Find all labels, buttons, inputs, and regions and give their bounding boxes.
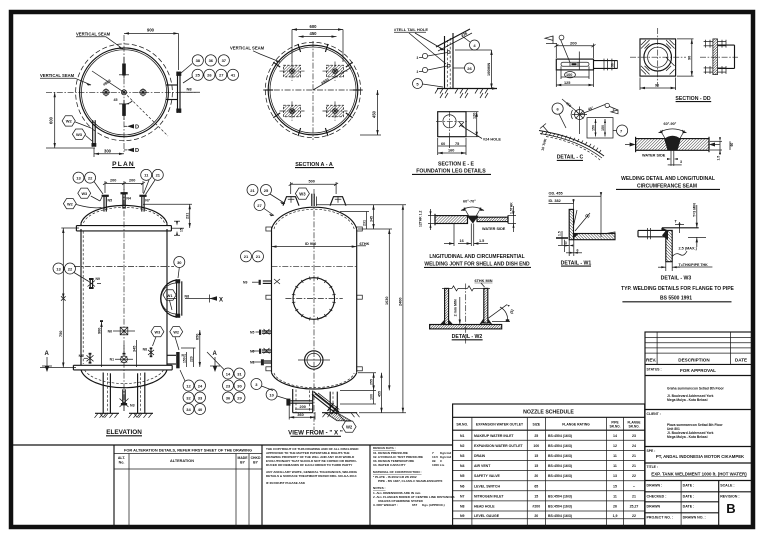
svg-text:N6: N6 [250, 350, 254, 354]
svg-text:BS:4504 (16/3): BS:4504 (16/3) [548, 434, 572, 438]
svg-text:EXP. TANK WELDMENT 1000 lt. (H: EXP. TANK WELDMENT 1000 lt. (HOT WATER) [651, 472, 747, 477]
W2 centerline [465, 284, 467, 345]
elevation legs [103, 373, 145, 414]
svg-text:N2: N2 [460, 444, 465, 448]
section AA leg pads [280, 62, 348, 121]
svg-text:PROJECT NO. :: PROJECT NO. : [647, 516, 674, 520]
W1 vertical plate [569, 209, 573, 239]
svg-text:1.5THK: 1.5THK [510, 202, 514, 214]
svg-text:11: 11 [613, 494, 617, 498]
svg-text:15: 15 [180, 228, 184, 232]
svg-text:6: 6 [577, 248, 579, 252]
svg-text:30: 30 [611, 63, 615, 67]
elevation ref circles 11 21 top [141, 169, 164, 194]
lug plate plan [556, 59, 593, 70]
viewx ref circle 3 [251, 379, 273, 391]
svg-text:21: 21 [632, 454, 636, 458]
svg-text:360: 360 [297, 413, 303, 417]
long weld right thk dim [508, 202, 516, 232]
svg-text:33: 33 [198, 395, 203, 400]
lug side view with bolts [700, 39, 738, 75]
svg-text:EXPANSION WATER OUTLET: EXPANSION WATER OUTLET [476, 423, 524, 427]
viewx shell [272, 229, 357, 373]
svg-text:DESCRIPTION: DESCRIPTION [678, 358, 710, 363]
svg-text:20: 20 [534, 514, 538, 518]
elevation section A markers [42, 351, 220, 372]
elevation X marker [185, 295, 223, 304]
svg-text:11: 11 [613, 454, 617, 458]
W2 right plate [479, 288, 492, 324]
svg-text:125: 125 [564, 81, 570, 85]
elevation nozzle N8 small left [79, 353, 94, 364]
svg-text:60°-70°: 60°-70° [463, 199, 476, 203]
svg-text:21: 21 [632, 494, 636, 498]
weld detail caption [616, 176, 720, 189]
elevation dim 850 right [196, 330, 201, 367]
svg-text:231: 231 [362, 220, 366, 226]
svg-text:15: 15 [613, 484, 617, 488]
plan bottom flange bar [119, 100, 129, 120]
detail C thk dim [540, 124, 549, 152]
detail C title [557, 155, 584, 161]
elevation dims 150 220 right [181, 348, 196, 367]
detail C shell arc [539, 131, 604, 161]
elevation shell [81, 229, 167, 365]
svg-text:SR.NO.: SR.NO. [629, 425, 640, 429]
svg-text:04. WATER CAPACITY: 04. WATER CAPACITY [373, 463, 406, 467]
plan phi906 leader [92, 71, 124, 92]
svg-text:WATER SIDE: WATER SIDE [642, 153, 666, 157]
svg-text:31: 31 [237, 371, 242, 376]
svg-text:ALT.: ALT. [118, 456, 126, 460]
viewx top nozzle [312, 194, 317, 206]
viewx ref circles 21 21 left [241, 251, 264, 262]
svg-text:MATERIAL OF CONSTRUCTION :: MATERIAL OF CONSTRUCTION : [373, 470, 422, 474]
svg-text:PIPE - BS 1387, CLASS-C SEAMLE: PIPE - BS 1387, CLASS-C SEAMLESS/APPX [378, 479, 443, 483]
svg-text:13: 13 [56, 266, 61, 271]
elevation top flange [76, 223, 171, 231]
plan title [112, 161, 135, 168]
lug pipe stub [579, 52, 617, 71]
svg-text:22: 22 [632, 514, 636, 518]
weld right thickness dim [710, 137, 734, 160]
svg-text:14: 14 [613, 434, 617, 438]
W3 T dim [675, 220, 685, 234]
svg-text:21: 21 [250, 188, 255, 193]
elevation top nozzle N5 [102, 195, 113, 212]
svg-text:SR.NO.: SR.NO. [456, 423, 468, 427]
svg-text:Mega Mulya - Kota Bekasi: Mega Mulya - Kota Bekasi [667, 435, 708, 439]
svg-text:22: 22 [88, 175, 93, 180]
svg-text:150: 150 [182, 357, 186, 363]
svg-text:N6: N6 [108, 329, 112, 333]
W2 left plate [440, 288, 453, 324]
elevation dim 200 200 [103, 179, 145, 194]
svg-text:3: 3 [417, 56, 419, 60]
viewx circumferential seam line [272, 266, 357, 268]
svg-text:40: 40 [198, 407, 203, 412]
svg-text:W3: W3 [299, 192, 306, 197]
plan dim 900 [124, 28, 178, 71]
detail C nozzle cross [571, 107, 587, 135]
svg-text:DETAIL - W3: DETAIL - W3 [661, 276, 692, 282]
svg-text:25: 25 [264, 188, 269, 193]
W3 flange ring [662, 228, 699, 262]
svg-text:A: A [213, 351, 218, 357]
svg-text:VIEW FROM - " X ": VIEW FROM - " X " [288, 430, 343, 437]
svg-text:2 mm MIN: 2 mm MIN [453, 299, 457, 316]
svg-text:IF IN DOUBT PLEASE ASK: IF IN DOUBT PLEASE ASK [266, 481, 306, 485]
svg-text:REVISION :: REVISION : [720, 495, 739, 499]
svg-text:37: 37 [222, 58, 227, 63]
svg-text:25: 25 [195, 73, 200, 78]
svg-text:3: 3 [680, 160, 682, 164]
svg-text:A: A [45, 351, 50, 357]
foundation leg pipe [417, 29, 473, 89]
viewx manhole [285, 277, 342, 321]
svg-text:1630: 1630 [385, 297, 389, 305]
svg-text:FOR APPROVAL: FOR APPROVAL [680, 368, 716, 373]
svg-text:WELDING JONT FOR SHELL AND DIS: WELDING JONT FOR SHELL AND DISH END [424, 261, 530, 267]
svg-text:24: 24 [632, 444, 636, 448]
svg-text:MAKEUP WATER INLET: MAKEUP WATER INLET [474, 434, 514, 438]
section AA vertical seam label [230, 46, 280, 63]
viewx lifting lugs [283, 196, 346, 206]
svg-text:1000 Lts: 1000 Lts [432, 463, 445, 467]
plan label vertical seam left [40, 73, 91, 86]
plan hexagon W2 [62, 116, 91, 128]
svg-text:23: 23 [632, 434, 636, 438]
svg-text:3: 3 [613, 107, 615, 111]
svg-text:20: 20 [534, 474, 538, 478]
viewx diagonal nozzle N2 [312, 392, 339, 414]
section DD title [675, 96, 711, 102]
svg-text:12THK 1.2: 12THK 1.2 [419, 210, 423, 227]
svg-text:CHECKED :: CHECKED : [647, 495, 667, 499]
svg-text:N6: N6 [460, 484, 465, 488]
elevation ref circles 13 22 top [73, 172, 103, 194]
svg-text:SCALE :: SCALE : [720, 484, 734, 488]
svg-text:22: 22 [632, 474, 636, 478]
svg-text:450: 450 [310, 31, 318, 36]
svg-text:N3: N3 [460, 454, 465, 458]
svg-text:DETAIL - C: DETAIL - C [557, 155, 584, 161]
svg-text:90: 90 [688, 56, 692, 60]
svg-text:1.5: 1.5 [558, 231, 562, 236]
svg-text:ID 900: ID 900 [305, 242, 316, 246]
W1 id dim [549, 199, 575, 210]
design data notes block [373, 446, 455, 507]
elevation nozzle N6 on centerline [108, 327, 135, 335]
nozzle schedule table [453, 404, 645, 527]
section AA phi900 leader [313, 67, 352, 90]
svg-text:12: 12 [613, 444, 617, 448]
viewx ref circle 10 [266, 389, 290, 400]
svg-text:NOZZLE SCHEDULE: NOZZLE SCHEDULE [523, 409, 574, 415]
elevation title [106, 429, 142, 436]
elevation flange thk dim [171, 221, 184, 235]
base plate dims 60 75 160 [438, 138, 466, 155]
svg-text:150: 150 [592, 125, 596, 131]
W2 top break lines [442, 286, 490, 291]
viewx front leg [293, 389, 313, 413]
viewx dim 500 [289, 180, 338, 195]
viewx drain circle [298, 351, 330, 369]
svg-text:29: 29 [237, 395, 242, 400]
long weld root dims [444, 224, 488, 247]
svg-text:SECTION E - E: SECTION E - E [438, 162, 475, 168]
section AA seam ticks [265, 44, 362, 136]
svg-text:DATE :: DATE : [683, 505, 695, 509]
svg-text:BS:4504 (16/3): BS:4504 (16/3) [548, 454, 572, 458]
svg-text:11: 11 [613, 464, 617, 468]
svg-text:N1: N1 [460, 434, 465, 438]
W3 2.5max label [672, 247, 697, 257]
svg-text:N1: N1 [250, 361, 254, 365]
svg-text:FLANGE RATING: FLANGE RATING [562, 423, 590, 427]
foundation leg ref circle 5 [413, 79, 444, 89]
svg-text:455: 455 [377, 391, 381, 397]
svg-text:N5: N5 [108, 199, 113, 203]
svg-text:AIR VENT: AIR VENT [474, 464, 491, 468]
svg-text:200: 200 [129, 179, 135, 183]
elevation ref circles 13 22 left [53, 263, 88, 281]
viewx head [272, 207, 357, 229]
svg-text:Kgs (APPROX.): Kgs (APPROX.) [422, 503, 445, 507]
svg-text:#24 HOLE: #24 HOLE [483, 138, 501, 142]
svg-text:36: 36 [226, 395, 231, 400]
elevation drain N3 [120, 389, 135, 411]
svg-text:DETAILS & SURFACE TREATMENT RE: DETAILS & SURFACE TREATMENT REFER DRG. N… [266, 474, 357, 478]
svg-text:26: 26 [207, 73, 212, 78]
elevation hexagon W2 top [63, 199, 101, 209]
elevation bottom head [81, 370, 167, 388]
svg-text:N8: N8 [185, 295, 190, 299]
svg-text:TYP. WELDING DETAILS FOR FLANG: TYP. WELDING DETAILS FOR FLANGE TO PIPE [621, 286, 734, 292]
svg-text:60: 60 [730, 143, 734, 147]
svg-text:15: 15 [534, 454, 538, 458]
svg-text:W2: W2 [67, 202, 73, 206]
detail C ref circle 6 [552, 103, 566, 128]
section AA dim 450 top [299, 31, 337, 38]
svg-text:BS:4504 (16/3): BS:4504 (16/3) [548, 505, 572, 509]
elevation dim 345 internal [132, 340, 136, 367]
svg-text:BS:4504 (16/3): BS:4504 (16/3) [548, 474, 572, 478]
elevation hexagon W3 top [78, 188, 102, 201]
svg-text:T=THK/PIPE THK: T=THK/PIPE THK [679, 263, 709, 267]
svg-text:65: 65 [534, 484, 538, 488]
svg-text:13: 13 [76, 175, 81, 180]
elevation top nozzle N7 [139, 195, 150, 212]
svg-text:6THK MIN: 6THK MIN [475, 279, 493, 283]
detail C pad plate [587, 118, 613, 138]
viewx ref circles top [247, 185, 285, 217]
svg-text:LEVEL SWITCH: LEVEL SWITCH [474, 484, 500, 488]
elevation hexagons W3 W2 bottom [151, 327, 183, 350]
lug dims 100 125 [556, 66, 593, 87]
svg-text:SECTION - DD: SECTION - DD [675, 96, 710, 102]
elevation nozzle N9 left [88, 277, 102, 289]
svg-text:22: 22 [68, 266, 73, 271]
svg-text:MADE: MADE [238, 456, 249, 460]
svg-text:200: 200 [110, 179, 116, 183]
svg-text:CIRCUMFERANCE SEAM: CIRCUMFERANCE SEAM [637, 183, 697, 189]
svg-text:BY: BY [253, 461, 258, 465]
svg-text:27: 27 [257, 203, 262, 208]
section EE title [412, 162, 491, 175]
svg-text:26: 26 [613, 505, 617, 509]
section DD dim 90 bottom [640, 78, 676, 91]
viewx right dims 255 100 [340, 373, 376, 404]
plan diagonal dashed line [124, 92, 168, 136]
svg-text:900: 900 [147, 28, 155, 33]
svg-text:25: 25 [534, 434, 538, 438]
plan hexagon W3 [72, 129, 92, 141]
lug dim 200 [554, 40, 595, 58]
svg-text:DETAIL - W1: DETAIL - W1 [561, 260, 592, 266]
svg-text:1,9: 1,9 [613, 514, 618, 518]
svg-text:34: 34 [186, 407, 191, 412]
svg-text:27: 27 [219, 73, 224, 78]
plan ref circles 25 26 27 41 [181, 64, 239, 84]
elevation dim 900 internal [97, 320, 103, 367]
viewx left nozzles bottom [250, 348, 272, 365]
svg-text:3. DRY WEIGHT :: 3. DRY WEIGHT : [373, 503, 398, 507]
viewx hexagon W2 [334, 409, 356, 432]
svg-text:W3: W3 [76, 132, 83, 137]
svg-text:PLAN: PLAN [112, 161, 135, 168]
section DD square plate [630, 28, 686, 87]
plan center bolt symbols [102, 88, 147, 96]
svg-text:100: 100 [369, 394, 373, 400]
svg-text:DRAIN: DRAIN [474, 454, 486, 458]
svg-text:26: 26 [467, 66, 472, 71]
svg-text:N9: N9 [96, 277, 100, 281]
svg-text:21: 21 [156, 173, 161, 178]
svg-text:16: 16 [460, 239, 464, 243]
svg-text:13: 13 [613, 474, 617, 478]
svg-text:N5: N5 [250, 331, 254, 335]
plan nozzle lower-left flange [92, 120, 97, 147]
elevation dished head [81, 205, 167, 223]
svg-text:N1: N1 [110, 358, 114, 362]
viewx dim 200 [295, 405, 313, 409]
svg-text:150: 150 [601, 125, 605, 131]
W1 angle leader [574, 210, 591, 231]
svg-text:38: 38 [196, 58, 201, 63]
svg-text:450: 450 [372, 110, 377, 118]
lug weld flag [545, 35, 570, 62]
elevation nozzle N2 right [167, 352, 186, 368]
viewx hexagon W3 [295, 188, 309, 199]
svg-text:90: 90 [655, 84, 659, 88]
foundation dim 100min [455, 50, 493, 89]
svg-text:HEAD HOLE: HEAD HOLE [474, 505, 495, 509]
detail C diagonal leaders [562, 99, 618, 115]
plan label vertical seam top [76, 32, 123, 49]
elevation left dims [40, 228, 79, 368]
svg-text:W3: W3 [81, 192, 87, 196]
svg-text:41: 41 [231, 73, 236, 78]
long weld groove angle [461, 199, 484, 222]
svg-text:TITLE :: TITLE : [647, 465, 659, 469]
svg-text:900: 900 [97, 328, 101, 334]
elevation ref circle group A [180, 370, 206, 415]
detail C ref circle 7 [613, 125, 628, 136]
foundation leg ref circle 4 [462, 36, 480, 50]
svg-text:3: 3 [417, 70, 419, 74]
svg-text:200: 200 [570, 40, 577, 45]
svg-text:SIZE: SIZE [533, 423, 541, 427]
svg-text:345: 345 [369, 216, 373, 222]
lug side dim [610, 61, 617, 69]
svg-text:SR.NO.: SR.NO. [610, 425, 621, 429]
svg-text:N2: N2 [182, 354, 186, 358]
svg-text:30: 30 [237, 383, 242, 388]
W1 od dim [549, 192, 603, 237]
svg-text:#TELL TAIL HOLE: #TELL TAIL HOLE [394, 27, 428, 32]
elevation hexagon W1 on manhole [163, 290, 176, 310]
svg-text:Mega Mulya - Kota Bekasi: Mega Mulya - Kota Bekasi [667, 398, 708, 402]
section AA dim 600 top [292, 24, 343, 62]
svg-text:No.: No. [119, 461, 125, 465]
svg-text:FOR ALTERATION DETAILS, REFER: FOR ALTERATION DETAILS, REFER FIRST SHEE… [124, 447, 252, 452]
weld groove angle [659, 122, 687, 147]
svg-text:255: 255 [369, 379, 373, 385]
svg-text:N8: N8 [143, 348, 147, 352]
viewx drain outlet left [286, 399, 313, 406]
plan nozzle N8 right [166, 72, 200, 113]
alteration note strip [13, 445, 453, 527]
svg-text:120: 120 [472, 113, 476, 119]
svg-text:DRAWN NO. :: DRAWN NO. : [683, 516, 706, 520]
svg-text:750: 750 [59, 331, 63, 337]
svg-text:B: B [726, 501, 735, 516]
svg-text:3: 3 [565, 241, 567, 245]
svg-text:SAFETY VALVE: SAFETY VALVE [474, 474, 501, 478]
svg-text:36: 36 [209, 58, 214, 63]
svg-text:24: 24 [198, 383, 203, 388]
W2 6thk label [475, 279, 493, 287]
svg-text:#200: #200 [532, 505, 540, 509]
viewx dims 345 231 top right [340, 205, 375, 229]
svg-text:NITROGEN INLET: NITROGEN INLET [474, 494, 504, 498]
svg-text:N7: N7 [145, 199, 150, 203]
svg-text:DATE: DATE [735, 358, 747, 363]
elevation ref circle 30 [174, 257, 185, 279]
svg-text:VERTICAL SEAM: VERTICAL SEAM [76, 32, 111, 37]
svg-text:60°-90°: 60°-90° [664, 122, 677, 126]
svg-text:345: 345 [132, 346, 136, 352]
svg-text:N4: N4 [460, 464, 465, 468]
svg-text:SPE :: SPE : [647, 449, 656, 453]
W1 title [561, 260, 592, 266]
svg-text:BS:4504 (16/3): BS:4504 (16/3) [548, 464, 572, 468]
svg-text:100: 100 [566, 73, 572, 77]
W3 bottom dim [658, 262, 712, 271]
svg-text:600: 600 [49, 116, 54, 124]
svg-text:N7: N7 [460, 494, 465, 498]
W2 angle arc [488, 305, 515, 322]
section DD dim 90 right [677, 39, 694, 76]
viewx nozzle N9 left [243, 279, 280, 285]
svg-text:21: 21 [632, 464, 636, 468]
svg-text:160: 160 [448, 149, 454, 153]
svg-text:32: 32 [186, 395, 191, 400]
svg-text:X: X [219, 297, 223, 303]
svg-text:30: 30 [177, 260, 182, 265]
svg-text:BY: BY [240, 461, 245, 465]
